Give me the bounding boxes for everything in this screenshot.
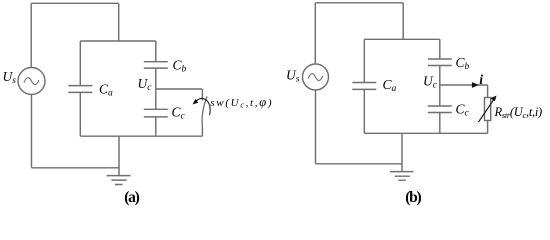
svg-text:(b): (b) [405, 189, 421, 206]
svg-text:Cb: Cb [173, 58, 187, 75]
wire: (a) Cb-Cc middle lead through Uc node [155, 68, 157, 109]
capacitor Cb (b) [428, 59, 452, 66]
wire: (b) resistor bottom lead [487, 121, 489, 134]
wire: (b) inner bottom node line [364, 132, 487, 134]
wire: (b) Uc node to resistor branch with current i [440, 84, 488, 86]
svg-text:Ca: Ca [383, 77, 397, 94]
wire: (a) Uc node to switch branch [156, 88, 203, 90]
wire: (b) bottom wire to ground node [316, 163, 403, 165]
resistor Rstr variability arrow [479, 99, 495, 123]
wire: (b) drop from top wire to inner node line [402, 3, 404, 40]
wire: (a) bottom wire to ground node [32, 167, 120, 169]
wire: (a) Cb upper lead [155, 41, 157, 62]
wire: (b) Ca branch lower lead [363, 89, 365, 133]
wire: (b) Cb upper lead [439, 39, 441, 59]
switch sw blade [202, 96, 207, 127]
svg-text:Cb: Cb [456, 55, 470, 72]
voltage source Us (b) [303, 64, 329, 90]
capacitor Ca [68, 86, 92, 93]
wire: (a) left vertical below source [31, 95, 33, 168]
svg-text:Cc: Cc [456, 102, 470, 119]
switch sw arc [194, 98, 211, 115]
current arrow i head [472, 82, 479, 88]
svg-text:Us: Us [3, 69, 17, 86]
voltage source Us (a) [18, 68, 45, 95]
wire: (b) Ca branch upper lead [363, 39, 365, 82]
wire: (b) left vertical below source [315, 90, 317, 164]
ground (a) [107, 176, 131, 185]
wire: (a) inner top node line [80, 40, 156, 42]
svg-text:Ca: Ca [99, 81, 113, 98]
wire: (b) left vertical to source top [314, 3, 316, 64]
wire: (a) inner bottom node line [80, 135, 202, 137]
wire: (b) inner top node line [364, 38, 440, 40]
wire: (a) switch top lead [201, 89, 203, 101]
wire: (a) switch bottom lead [201, 127, 203, 136]
wire: (b) top wire [315, 2, 403, 4]
wire: (b) Cc lower lead [439, 113, 441, 134]
svg-text:Rstr(Uc,t,i): Rstr(Uc,t,i) [494, 105, 542, 120]
capacitor Cc (b) [428, 106, 452, 113]
ground (b) [390, 172, 414, 181]
svg-text:i: i [479, 72, 483, 87]
wire: (b) ground stem [401, 133, 403, 171]
capacitor Ca (b) [352, 83, 376, 90]
wire: (a) Ca branch upper lead [79, 41, 81, 86]
wire: (a) left vertical to source top [30, 3, 32, 67]
svg-text:(a): (a) [124, 189, 139, 206]
svg-text:sw(Uc,t,φ): sw(Uc,t,φ) [210, 95, 273, 110]
wire: (a) Ca branch lower lead [79, 92, 81, 136]
wire: (b) resistor top lead [487, 85, 489, 98]
wire: (a) ground stem [118, 136, 120, 175]
switch sw arrowhead [193, 99, 199, 104]
capacitor Cc [144, 109, 168, 117]
svg-text:Cc: Cc [172, 104, 186, 121]
svg-text:Uc: Uc [138, 76, 153, 93]
resistor Rstr body [485, 98, 491, 121]
wire: (a) drop from top wire to inner node line [118, 3, 120, 41]
wire: (a) top wire [31, 2, 119, 4]
wire: (b) Cb-Cc middle lead through Uc node [439, 66, 441, 107]
capacitor Cb [144, 62, 168, 68]
svg-text:Us: Us [286, 68, 300, 85]
wire: (a) Cc lower lead [155, 117, 157, 136]
svg-text:Uc: Uc [423, 74, 438, 91]
